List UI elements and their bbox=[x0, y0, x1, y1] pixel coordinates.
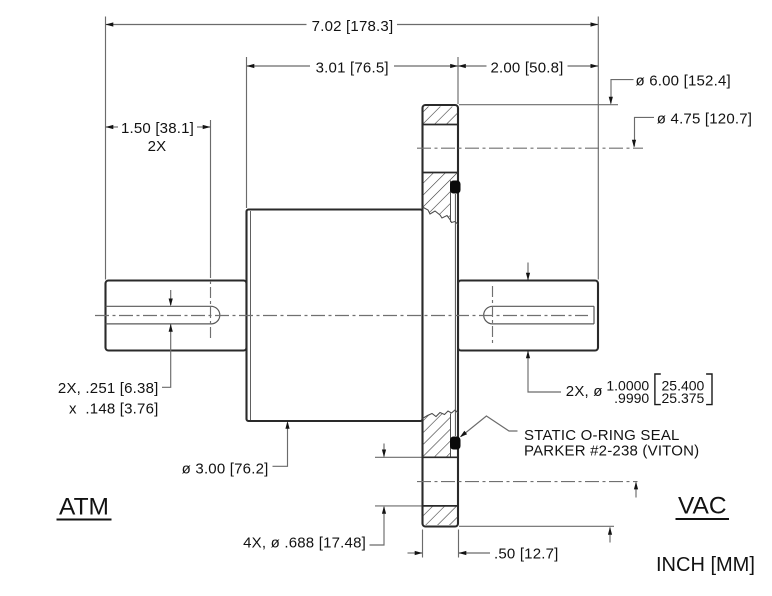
centerline lower bolt hole bbox=[417, 481, 638, 483]
upper bolt hole edges bbox=[423, 124, 459, 126]
o-ring upper (seal cross-section) bbox=[450, 181, 461, 194]
arrow 1.50 left bbox=[106, 125, 114, 129]
svg-text:STATIC O-RING SEAL: STATIC O-RING SEAL bbox=[524, 427, 680, 444]
arrow o-ring leader bbox=[460, 431, 467, 437]
dimension line 1.50 bbox=[106, 126, 119, 128]
arrow dia 3.00 bbox=[285, 421, 289, 429]
svg-text:ø 3.00 [76.2]: ø 3.00 [76.2] bbox=[182, 461, 269, 478]
leader o-ring note bbox=[461, 416, 518, 437]
svg-text:7.02 [178.3]: 7.02 [178.3] bbox=[312, 18, 394, 35]
left keyway slot bbox=[106, 306, 220, 324]
svg-text:INCH [MM]: INCH [MM] bbox=[656, 554, 755, 576]
stem dia 4.75 lower arrow bbox=[635, 483, 637, 498]
underline ATM bbox=[57, 519, 112, 521]
arrow dia 6.00 top bbox=[609, 97, 613, 105]
upper break line bbox=[423, 207, 459, 225]
arrow 4X bottom bbox=[382, 506, 386, 514]
flange body bbox=[423, 105, 459, 527]
svg-text:25.375: 25.375 bbox=[662, 390, 705, 406]
flange top hatch band bbox=[423, 107, 459, 125]
arrow 7.02 right bbox=[591, 22, 599, 26]
dimension line .50 bbox=[408, 552, 423, 554]
svg-text:2X: 2X bbox=[148, 138, 167, 155]
right shaft bbox=[458, 281, 598, 351]
arrow .50 left bbox=[415, 551, 423, 555]
svg-text:3.01 [76.5]: 3.01 [76.5] bbox=[316, 60, 389, 77]
leader dia 4.75 bbox=[635, 117, 655, 146]
arrow dia 4.75 top bbox=[632, 140, 636, 148]
stem dia 6.00 lower arrow bbox=[609, 528, 611, 543]
leader keyway width to text bbox=[162, 325, 171, 388]
svg-text:x .148 [3.76]: x .148 [3.76] bbox=[69, 401, 159, 418]
arrow shaft dia bottom bbox=[526, 351, 530, 359]
dimension line 7.02 bbox=[106, 24, 307, 26]
svg-text:VAC: VAC bbox=[678, 493, 727, 520]
lower break line bbox=[423, 410, 459, 419]
svg-text:.50 [12.7]: .50 [12.7] bbox=[494, 545, 559, 562]
stem shaft dia upper arrow bbox=[527, 263, 529, 280]
svg-text:PARKER #2-238 (VITON): PARKER #2-238 (VITON) bbox=[524, 443, 699, 460]
arrow 3.01 right bbox=[450, 64, 458, 68]
arrow 7.02 left bbox=[106, 22, 114, 26]
arrow 3.01 left bbox=[247, 64, 255, 68]
extension line bolt hole lower edge bbox=[375, 505, 422, 507]
lower o-ring zone hatch bbox=[423, 411, 451, 457]
bracket right for mm tolerance bbox=[706, 374, 712, 405]
extension line bolt hole upper edge bbox=[375, 456, 422, 458]
stem 4X upper arrow bbox=[383, 444, 385, 457]
centerline upper bolt hole bbox=[417, 147, 643, 149]
cylinder chamfer line bbox=[250, 211, 252, 420]
svg-text:ATM: ATM bbox=[59, 494, 109, 521]
extension line flange face below bbox=[458, 530, 460, 558]
svg-text:ø 6.00 [152.4]: ø 6.00 [152.4] bbox=[636, 73, 731, 90]
dimension line 2.00 bbox=[458, 65, 487, 67]
svg-text:ø 4.75 [120.7]: ø 4.75 [120.7] bbox=[657, 111, 752, 128]
right keyway slot bbox=[484, 306, 594, 324]
reference line flange OD bottom bbox=[459, 525, 614, 527]
leader 4X holes bbox=[370, 507, 385, 545]
extension line flange left below bbox=[422, 530, 424, 558]
arrow 2.00 right bbox=[591, 64, 599, 68]
svg-text:2X, .251 [6.38]: 2X, .251 [6.38] bbox=[58, 380, 159, 397]
svg-text:.9990: .9990 bbox=[614, 390, 649, 406]
arrow 4X top bbox=[382, 450, 386, 458]
left shaft bbox=[106, 281, 247, 351]
arrow keyway top bbox=[169, 299, 173, 307]
leader dia 3.00 bbox=[273, 423, 288, 467]
extension line cylinder left bbox=[246, 57, 248, 208]
arrow 1.50 right bbox=[203, 125, 211, 129]
leader shaft dia bbox=[528, 352, 561, 393]
o-ring lower (seal cross-section) bbox=[450, 437, 461, 450]
svg-text:2.00 [50.8]: 2.00 [50.8] bbox=[490, 60, 563, 77]
extension line left shaft end bbox=[105, 17, 107, 280]
centerline main axis bbox=[95, 315, 588, 317]
underline VAC bbox=[676, 518, 730, 520]
leader keyway width upper arrow stem bbox=[170, 290, 172, 305]
lower bolt hole edges bbox=[423, 456, 459, 458]
arrow dia 4.75 bottom bbox=[634, 482, 638, 490]
extension line flange face above bbox=[457, 57, 459, 104]
flange bottom hatch band bbox=[423, 506, 459, 525]
bracket left for mm tolerance bbox=[655, 374, 661, 405]
leader dia 6.00 bbox=[611, 80, 634, 104]
arrowheads bbox=[106, 22, 639, 555]
arrow 2.00 left bbox=[458, 64, 466, 68]
dimension line 3.01 bbox=[247, 65, 311, 67]
centerline left keyway radius bbox=[210, 267, 212, 341]
arrow .50 right bbox=[459, 551, 467, 555]
flange face inner line bbox=[454, 194, 456, 436]
arrow dia 6.00 bottom bbox=[608, 527, 612, 535]
arrow shaft dia top bbox=[526, 273, 530, 281]
svg-text:2X, ø: 2X, ø bbox=[566, 383, 603, 400]
body cylinder dia 3.00 bbox=[247, 210, 423, 422]
upper o-ring zone hatch bbox=[423, 173, 459, 223]
centerline right keyway radius bbox=[492, 286, 494, 346]
arrow keyway bottom bbox=[169, 324, 173, 332]
svg-text:1.50 [38.1]: 1.50 [38.1] bbox=[121, 120, 194, 137]
reference line flange OD top bbox=[459, 104, 618, 106]
extension line keyway length bbox=[210, 120, 212, 267]
svg-text:4X, ø .688 [17.48]: 4X, ø .688 [17.48] bbox=[243, 535, 366, 552]
o-ring groove lines bbox=[450, 181, 452, 223]
extension line right shaft end bbox=[597, 17, 599, 280]
